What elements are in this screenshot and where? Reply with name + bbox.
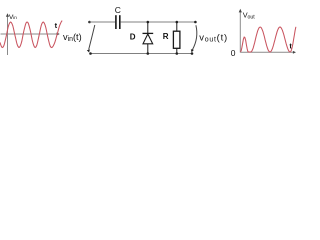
- output clamped sine waveform vout: [240, 27, 296, 52]
- wire top: source to capacitor: [90, 21, 116, 23]
- svg-text:t: t: [55, 21, 58, 30]
- bottom wire: [91, 53, 193, 55]
- output voltage arrow vout(t): [191, 25, 197, 52]
- source bottom terminal node: [89, 52, 92, 55]
- right graph vertical axis Vout: [239, 9, 242, 53]
- junction node diode bottom: [147, 52, 150, 55]
- diode D wire top segment: [147, 22, 149, 33]
- diode D cathode bar: [143, 32, 154, 34]
- left graph horizontal axis t: [1, 33, 60, 36]
- output top terminal node: [194, 21, 197, 24]
- capacitor C1 plates: [116, 15, 120, 29]
- output bottom terminal node: [191, 52, 194, 55]
- input source arrow vin(t): [87, 25, 95, 53]
- svg-text:C: C: [115, 5, 121, 15]
- resistor R wire top segment: [176, 22, 178, 31]
- source top terminal node: [88, 21, 91, 24]
- input sine waveform vin: [0, 21, 62, 48]
- wire top: capacitor to output: [121, 21, 196, 23]
- junction node diode top: [147, 21, 150, 24]
- junction node resistor bottom: [176, 52, 179, 55]
- diode D triangle: [143, 34, 153, 44]
- left graph vertical axis Vin: [6, 13, 9, 55]
- svg-text:R: R: [163, 32, 169, 41]
- diode D wire bottom segment: [147, 44, 149, 54]
- svg-text:Vin: Vin: [9, 14, 17, 21]
- resistor R box: [173, 31, 180, 48]
- svg-text:vout(t): vout(t): [199, 33, 228, 44]
- svg-text:Vout: Vout: [243, 10, 255, 20]
- resistor R wire bottom segment: [176, 48, 178, 53]
- right graph horizontal axis t: [240, 51, 296, 54]
- svg-text:D: D: [130, 33, 136, 42]
- svg-text:vin(t): vin(t): [63, 32, 82, 43]
- junction node resistor top: [176, 21, 179, 24]
- svg-text:0: 0: [231, 48, 236, 58]
